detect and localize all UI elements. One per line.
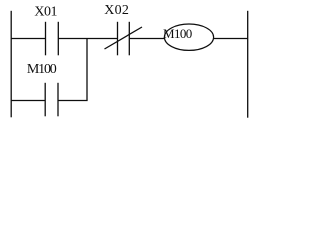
wire rung2 segment M100 contact to branch [58,100,88,102]
svg-text:X01: X01 [34,5,57,20]
wire rung1 segment coil to right rail [214,38,248,40]
wire rung1 segment rail to X01 [11,38,46,40]
left power rail [10,11,12,118]
coil M100 ellipse [164,24,213,50]
right power rail [247,11,249,118]
contact X01 [46,22,59,56]
svg-text:M100: M100 [163,26,192,41]
wire rung2 segment rail to M100 contact [11,100,45,102]
wire rung1 segment X02 to coil [129,38,164,40]
svg-text:M100: M100 [27,62,57,77]
wire rung1 segment X01 to X02 [58,38,117,40]
contact X02 normally closed [105,22,143,56]
contact M100 [45,83,58,117]
wire branch vertical junction [86,39,88,101]
svg-text:X02: X02 [104,3,129,18]
